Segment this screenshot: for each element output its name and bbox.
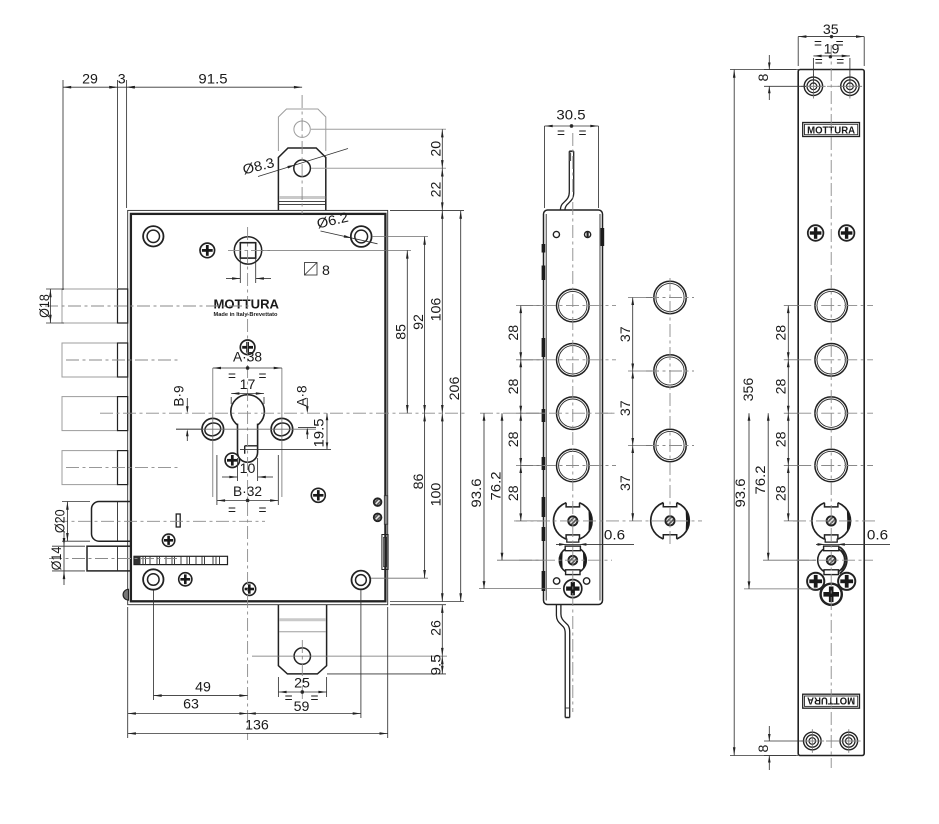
faceplate side view outline bbox=[544, 210, 603, 605]
small hole right bbox=[583, 578, 589, 584]
svg-text:8: 8 bbox=[322, 263, 330, 278]
toothed rack bbox=[134, 556, 228, 564]
dim 3 bbox=[118, 86, 127, 88]
dim 92 extension bbox=[372, 236, 428, 238]
bottom screw left bbox=[804, 732, 822, 750]
small hole left bbox=[553, 578, 559, 584]
screw A bbox=[200, 243, 215, 258]
svg-text:B·32: B·32 bbox=[233, 484, 262, 499]
svg-text:=: = bbox=[228, 503, 236, 518]
centerline cam row long bbox=[514, 520, 702, 522]
dim 10 bbox=[237, 458, 239, 481]
dim 59 extension bbox=[360, 590, 362, 718]
dim 49 extension bbox=[153, 590, 155, 700]
dim 9.5 bbox=[441, 656, 443, 674]
bolt hole 2 side view bbox=[557, 344, 590, 377]
svg-text:0.6: 0.6 bbox=[604, 528, 626, 543]
svg-text:92: 92 bbox=[411, 314, 426, 330]
svg-text:10: 10 bbox=[240, 461, 256, 476]
top bracket hole bbox=[294, 160, 311, 177]
svg-text:Ø8.3: Ø8.3 bbox=[241, 155, 276, 177]
bottom bracket bbox=[278, 605, 326, 674]
keyhole side hole right bbox=[271, 418, 293, 440]
centerline main tick bbox=[600, 412, 612, 414]
svg-text:Ø18: Ø18 bbox=[37, 294, 52, 318]
lock body outline bbox=[128, 210, 388, 604]
svg-text:28: 28 bbox=[506, 431, 521, 447]
spindle square 8mm bbox=[240, 243, 255, 258]
svg-text:37: 37 bbox=[618, 400, 633, 416]
cam screw bbox=[568, 516, 577, 525]
cam screw bbox=[827, 516, 836, 525]
screw lower left bbox=[807, 573, 824, 590]
dim 29 bbox=[63, 86, 118, 88]
svg-text:=: = bbox=[259, 369, 267, 384]
screw G bbox=[243, 583, 256, 596]
svg-text:25: 25 bbox=[294, 676, 310, 691]
top bracket hatch bbox=[279, 196, 325, 199]
rivet hole left bbox=[553, 231, 559, 237]
dim 76.2 right view bbox=[763, 559, 816, 561]
bolt 1 section bbox=[654, 281, 686, 313]
svg-text:28: 28 bbox=[506, 378, 521, 394]
svg-text:37: 37 bbox=[618, 326, 633, 342]
dim 49 bbox=[154, 695, 248, 697]
centerline bolt row bbox=[520, 359, 616, 361]
dim 76.2 middle bbox=[497, 559, 544, 561]
bottom screw right bbox=[840, 732, 858, 750]
screw B bbox=[240, 340, 255, 355]
svg-text:=: = bbox=[836, 54, 844, 69]
screw C bbox=[225, 453, 239, 467]
strike box bbox=[382, 535, 388, 570]
MOTTURA plate bottom bbox=[803, 694, 860, 708]
bolt hole 1 side view bbox=[557, 289, 590, 322]
fixing hole bottom-left bbox=[143, 569, 163, 589]
centerline bolt section bbox=[646, 370, 694, 372]
centerline main vertical bbox=[247, 227, 249, 740]
svg-text:19.5: 19.5 bbox=[311, 418, 326, 447]
centerline side holes horizontal bbox=[176, 428, 316, 430]
cylinder keyhole bbox=[231, 395, 265, 429]
svg-text:93.6: 93.6 bbox=[469, 478, 484, 507]
centerline bottom bracket bbox=[301, 640, 303, 700]
centerline bolt row right view bbox=[798, 359, 873, 361]
centerline bolt row right view bbox=[798, 305, 873, 307]
dim 136 extension bbox=[127, 607, 129, 738]
leader D8.3 bbox=[258, 149, 348, 177]
svg-text:=: = bbox=[815, 54, 823, 69]
dim 30.5 bbox=[544, 126, 546, 208]
dim 19.5 bbox=[240, 448, 331, 450]
edge tab right bbox=[601, 228, 605, 246]
dim 22 bbox=[441, 168, 443, 210]
svg-text:35: 35 bbox=[823, 22, 839, 37]
edge pin bbox=[123, 589, 128, 600]
centerline bolt section bbox=[646, 297, 694, 299]
svg-text:=: = bbox=[311, 691, 319, 706]
svg-text:59: 59 bbox=[294, 699, 310, 714]
centerline bolt column vertical bbox=[669, 278, 671, 545]
leader D6.2 bbox=[321, 231, 378, 244]
svg-text:30.5: 30.5 bbox=[556, 108, 585, 123]
svg-text:B·9: B·9 bbox=[172, 385, 187, 407]
centerline bolt row bbox=[520, 465, 616, 467]
dim 35 bbox=[797, 37, 799, 66]
dim 19 bbox=[812, 58, 814, 84]
svg-text:A·38: A·38 bbox=[233, 350, 262, 365]
fixing screw bottom bbox=[564, 580, 582, 598]
cam screw bbox=[665, 516, 674, 525]
keyhole side hole left bbox=[202, 418, 224, 440]
fixing hole top-left bbox=[143, 226, 163, 246]
dim 20 / 22 extension lines bbox=[311, 128, 446, 130]
svg-text:8: 8 bbox=[756, 73, 771, 81]
deadbolt pin 4 bbox=[62, 451, 118, 485]
svg-text:Ø20: Ø20 bbox=[53, 509, 68, 533]
svg-text:Made in Italy-Brevettato: Made in Italy-Brevettato bbox=[214, 312, 278, 318]
dim 93.6 right view bbox=[744, 588, 816, 590]
dim D20 bbox=[62, 501, 90, 503]
svg-text:20: 20 bbox=[429, 141, 444, 157]
latch bolt D20 bbox=[92, 502, 131, 542]
dim 25 bbox=[277, 677, 279, 697]
svg-text:8: 8 bbox=[756, 744, 771, 752]
bottom bracket hole bbox=[294, 648, 310, 664]
dim 85 bbox=[406, 250, 408, 413]
dim A-38 bbox=[213, 367, 282, 369]
dim 206 bbox=[460, 211, 462, 602]
svg-text:17: 17 bbox=[240, 377, 256, 392]
control rod bottom bbox=[556, 605, 565, 718]
deadbolt pin 2 bbox=[62, 343, 118, 377]
bolt cam section bbox=[651, 502, 690, 541]
svg-text:Ø14: Ø14 bbox=[49, 546, 64, 570]
slot bbox=[176, 514, 180, 527]
svg-text:28: 28 bbox=[773, 324, 788, 340]
dim 86 extension bbox=[371, 577, 428, 579]
dim 85 extension bbox=[262, 249, 411, 251]
cam screw bbox=[827, 556, 836, 565]
svg-text:28: 28 bbox=[773, 485, 788, 501]
MOTTURA plate top bbox=[803, 123, 860, 137]
svg-text:=: = bbox=[557, 126, 565, 141]
screw lower center bbox=[821, 584, 842, 605]
dim 17 bbox=[231, 393, 264, 395]
strip screw 2 bbox=[374, 514, 382, 522]
fixing hole top-right D6.2 bbox=[351, 226, 372, 247]
svg-text:106: 106 bbox=[429, 297, 444, 321]
centerline cam2 right view bbox=[796, 559, 873, 561]
dim 8 spindle bbox=[239, 259, 241, 284]
bolt 3 section bbox=[654, 429, 686, 461]
screw pair upper left bbox=[808, 225, 824, 241]
screw D bbox=[311, 488, 325, 502]
deadbolt pin 1 bbox=[62, 289, 118, 323]
svg-text:86: 86 bbox=[411, 473, 426, 489]
svg-text:356: 356 bbox=[741, 377, 756, 401]
dim 20 bbox=[441, 129, 443, 168]
svg-text:85: 85 bbox=[394, 324, 409, 340]
svg-text:MOTTURA: MOTTURA bbox=[214, 297, 280, 312]
centerline cam2 row bbox=[519, 559, 612, 561]
rivet hole right bbox=[585, 231, 591, 237]
dim 28 chain middle bbox=[516, 305, 544, 307]
dim B-32 bbox=[216, 455, 218, 505]
centerline bolt row right view bbox=[798, 465, 873, 467]
top screw right bbox=[841, 77, 859, 95]
dim 28 chain right view bbox=[784, 305, 798, 307]
dim 63 bbox=[128, 713, 248, 715]
centerline cam1 right view bbox=[793, 520, 876, 522]
svg-text:206: 206 bbox=[447, 376, 462, 400]
svg-text:100: 100 bbox=[429, 482, 444, 506]
screw lower right bbox=[838, 573, 855, 590]
deadbolt pin 3 bbox=[62, 397, 118, 431]
dim 92 bbox=[424, 237, 426, 414]
svg-text:=: = bbox=[579, 126, 587, 141]
centerline bolt section bbox=[646, 445, 694, 447]
dim 8 bottom bbox=[764, 740, 804, 742]
svg-text:0.6: 0.6 bbox=[867, 528, 889, 543]
dim 100 bbox=[441, 413, 443, 601]
svg-text:63: 63 bbox=[183, 697, 199, 712]
svg-text:37: 37 bbox=[618, 475, 633, 491]
dim 0.6 right view bbox=[816, 543, 890, 545]
dim 37 chain bbox=[628, 297, 652, 299]
top screw left bbox=[804, 77, 822, 95]
side strip with screws bbox=[384, 496, 387, 525]
svg-text:=: = bbox=[814, 36, 822, 51]
svg-text:=: = bbox=[285, 691, 293, 706]
bolt hole 4 side view bbox=[557, 449, 590, 482]
centerline right view vertical bbox=[830, 45, 832, 768]
centerline pin D14 bbox=[49, 558, 180, 560]
svg-text:136: 136 bbox=[245, 718, 269, 733]
centerline spindle horizontal bbox=[228, 249, 270, 251]
svg-text:3: 3 bbox=[118, 72, 126, 87]
centerline bracket vertical bbox=[301, 95, 303, 214]
dim 93.6 middle bbox=[479, 588, 561, 590]
dim 29 / 3 / 91.5 extension lines bbox=[62, 80, 64, 290]
centerline bolt row right view bbox=[798, 412, 873, 414]
screw F bbox=[179, 573, 192, 586]
keyhole notch bbox=[245, 446, 258, 454]
centerline bolt row bbox=[520, 305, 616, 307]
top bracket extended (phantom) bbox=[278, 109, 325, 151]
centerline bottom screws bbox=[803, 740, 858, 742]
dim 91.5 bbox=[127, 86, 303, 88]
svg-text:28: 28 bbox=[506, 485, 521, 501]
dim 9.5 extension bbox=[327, 673, 446, 675]
top bracket bbox=[278, 148, 325, 210]
svg-text:29: 29 bbox=[82, 72, 98, 87]
centerline faceplate vertical bbox=[572, 133, 574, 712]
centerline main horizontal bbox=[100, 412, 466, 414]
bottom bracket hatch bbox=[280, 618, 326, 621]
dim D18 bbox=[46, 288, 64, 290]
auxiliary pin D14 bbox=[87, 546, 131, 571]
edge tabs left bbox=[542, 244, 546, 253]
control rod top bbox=[560, 151, 569, 210]
svg-text:93.6: 93.6 bbox=[733, 478, 748, 507]
bolt hole 1 front view bbox=[815, 289, 848, 322]
bolt hole 4 front view bbox=[815, 449, 848, 482]
svg-text:=: = bbox=[228, 369, 236, 384]
svg-text:49: 49 bbox=[195, 680, 211, 695]
extension side holes vertical bbox=[212, 368, 214, 497]
svg-text:91.5: 91.5 bbox=[198, 72, 227, 87]
bolt hole 3 front view bbox=[815, 397, 848, 430]
centerline pin4 bbox=[66, 467, 178, 469]
spindle hub bbox=[234, 237, 261, 264]
centerline pin2 bbox=[66, 359, 178, 361]
svg-text:9.5: 9.5 bbox=[428, 654, 443, 676]
bolt 2 section bbox=[654, 355, 686, 387]
svg-text:28: 28 bbox=[506, 324, 521, 340]
dim 136 bbox=[128, 733, 388, 735]
bolt hole 2 front view bbox=[815, 344, 848, 377]
screw pair upper right bbox=[839, 225, 855, 241]
top bracket phantom hole bbox=[294, 121, 310, 137]
centerline pin1 bbox=[45, 305, 250, 307]
fixing hole bottom-right bbox=[352, 571, 371, 590]
strip screw 1 bbox=[374, 498, 382, 506]
cam large front view bbox=[812, 502, 851, 541]
centerline middle horizontal main bbox=[480, 412, 616, 414]
dim 59 bbox=[248, 713, 361, 715]
screw E bbox=[162, 534, 174, 546]
centerline top screws bbox=[804, 85, 859, 87]
dim 8 top bbox=[764, 69, 800, 71]
dim square 8 symbol bbox=[305, 263, 318, 276]
centerline latch D20 bbox=[55, 520, 265, 522]
dim 86 bbox=[424, 413, 426, 578]
svg-text:76.2: 76.2 bbox=[753, 465, 768, 494]
dim 106 bbox=[441, 211, 443, 414]
cam screw bbox=[568, 556, 577, 565]
svg-text:22: 22 bbox=[429, 182, 444, 198]
dim 26 bbox=[441, 605, 443, 656]
svg-text:28: 28 bbox=[773, 431, 788, 447]
bolt hole 3 side view bbox=[557, 397, 590, 430]
faceplate front view outline bbox=[798, 70, 864, 756]
dim 0.6 middle bbox=[556, 543, 634, 545]
svg-text:28: 28 bbox=[773, 378, 788, 394]
dim 356 bbox=[730, 69, 796, 71]
bottom edge extension right bbox=[390, 601, 464, 603]
svg-text:76.2: 76.2 bbox=[488, 471, 503, 500]
dim D14 bbox=[52, 545, 85, 547]
svg-text:=: = bbox=[259, 503, 267, 518]
svg-text:26: 26 bbox=[429, 620, 444, 636]
cam small side view bbox=[559, 547, 586, 574]
cam small front view bbox=[818, 547, 845, 574]
cam large side view bbox=[554, 502, 593, 541]
